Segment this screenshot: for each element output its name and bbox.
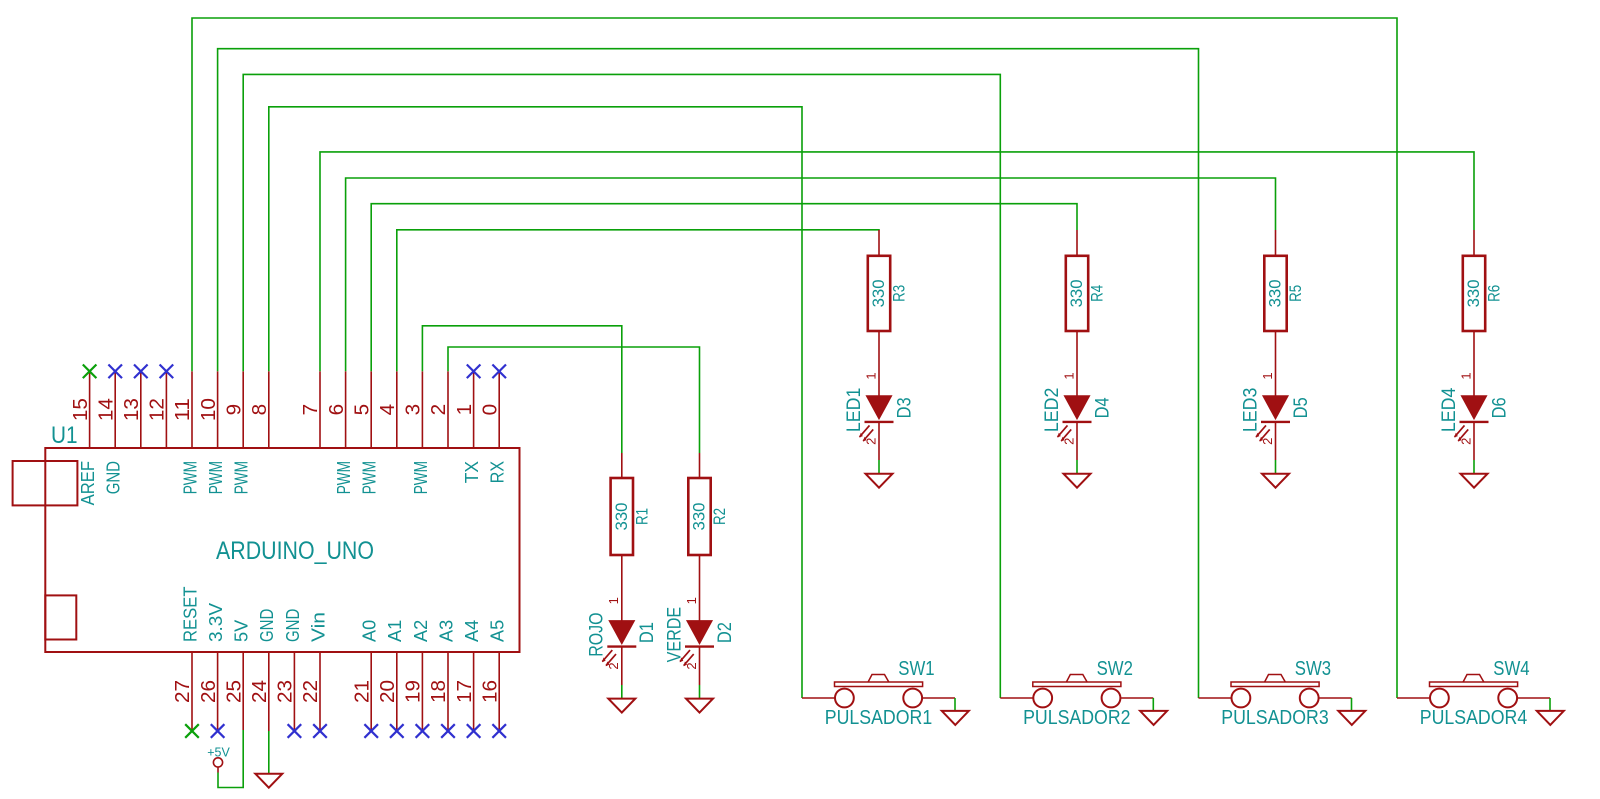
U1 bottom pin 19: [403, 620, 431, 731]
svg-text:SW2: SW2: [1097, 658, 1133, 680]
ground symbol below D2: [686, 699, 713, 713]
svg-text:AREF: AREF: [78, 461, 98, 505]
wire D2 cathode to ground: [699, 685, 701, 698]
svg-text:8: 8: [249, 404, 271, 416]
svg-text:PWM: PWM: [180, 461, 200, 494]
svg-text:11: 11: [172, 398, 194, 421]
no-connect X pin 0: [492, 365, 506, 379]
U1 top pin 1: [454, 371, 482, 483]
svg-text:0: 0: [479, 404, 501, 416]
U1 top pin 6: [326, 371, 354, 494]
U1 top pin 7: [300, 371, 322, 448]
svg-text:12: 12: [147, 398, 169, 421]
svg-text:PWM: PWM: [360, 461, 380, 494]
wire pin 24 to ground: [268, 731, 270, 774]
no-connect X pin 23: [288, 724, 302, 738]
svg-text:D4: D4: [1092, 397, 1113, 418]
svg-text:VERDE: VERDE: [664, 607, 685, 663]
wire pin 9 to SW2: [243, 74, 1000, 698]
svg-text:14: 14: [95, 398, 117, 421]
ground symbol below D3: [866, 474, 893, 488]
LED D5 LED3: [1240, 372, 1312, 460]
svg-text:PULSADOR2: PULSADOR2: [1023, 707, 1130, 729]
resistor R2 330: [688, 453, 729, 621]
wire pin 7 to R6: [320, 152, 1474, 371]
svg-text:1: 1: [863, 372, 878, 379]
no-connect X pin 18: [441, 724, 455, 738]
ground symbol below D6: [1461, 474, 1488, 488]
svg-text:Vin: Vin: [308, 612, 328, 642]
no-connect X pin 26: [211, 724, 225, 738]
svg-text:D3: D3: [894, 397, 915, 418]
svg-text:R2: R2: [710, 508, 729, 525]
U1 bottom pin 23: [275, 609, 303, 731]
LED D4 LED2: [1042, 372, 1114, 460]
svg-text:GND: GND: [257, 609, 277, 642]
U1 top pin 15: [70, 371, 98, 505]
U1 value ARDUINO_UNO: [216, 537, 374, 565]
resistor R5 330: [1264, 230, 1305, 396]
svg-text:LED2: LED2: [1042, 388, 1063, 432]
no-connect X pin 22: [313, 724, 327, 738]
U1 top pin 9: [223, 371, 251, 494]
switch SW3 PULSADOR3: [1199, 658, 1352, 729]
svg-text:GND: GND: [104, 461, 124, 494]
wire pin 6 to R5: [346, 178, 1276, 371]
svg-text:PULSADOR3: PULSADOR3: [1221, 707, 1328, 729]
svg-text:16: 16: [479, 680, 501, 703]
resistor R4 330: [1066, 230, 1107, 396]
svg-text:+5V: +5V: [207, 745, 230, 760]
svg-text:1: 1: [684, 597, 699, 604]
wire SW1 to ground: [954, 698, 956, 711]
svg-text:10: 10: [198, 398, 220, 421]
switch SW2 PULSADOR2: [1000, 658, 1153, 729]
svg-text:A3: A3: [436, 620, 456, 642]
svg-text:27: 27: [172, 680, 194, 703]
no-connect X pin 20: [390, 724, 404, 738]
U1 top pin 5: [351, 371, 379, 494]
svg-text:TX: TX: [462, 461, 482, 483]
svg-text:2: 2: [1458, 438, 1473, 445]
U1 top pin 4: [377, 371, 399, 448]
svg-text:PWM: PWM: [206, 461, 226, 494]
svg-text:LED3: LED3: [1240, 388, 1261, 432]
svg-text:2: 2: [606, 662, 621, 669]
wire pin 3 to R1: [422, 326, 621, 453]
no-connect X pin 13: [134, 365, 148, 379]
svg-text:PULSADOR4: PULSADOR4: [1420, 707, 1527, 729]
wire D5 cathode to ground: [1275, 460, 1277, 474]
svg-text:A4: A4: [462, 620, 482, 642]
svg-text:15: 15: [70, 398, 92, 421]
svg-text:ROJO: ROJO: [587, 612, 608, 656]
wire pin 4 to R3: [397, 230, 879, 371]
svg-text:25: 25: [223, 680, 245, 703]
ground symbol at SW2: [1140, 711, 1167, 725]
svg-text:LED4: LED4: [1439, 387, 1460, 432]
svg-text:4: 4: [377, 404, 399, 416]
U1 top pin 8: [249, 371, 271, 448]
svg-text:R5: R5: [1286, 285, 1305, 302]
U1 bottom pin 16: [479, 620, 507, 731]
resistor R6 330: [1463, 230, 1504, 396]
switch SW1 PULSADOR1: [802, 658, 955, 729]
svg-text:2: 2: [1061, 438, 1076, 445]
U1 USB connector box: [13, 461, 78, 505]
svg-text:5: 5: [351, 404, 373, 416]
svg-text:1: 1: [1061, 372, 1076, 379]
U1 bottom pin 22: [300, 612, 328, 731]
U1 reference designator: [51, 422, 78, 449]
U1 top pin 14: [95, 371, 123, 494]
wire pin 25 to +5V symbol: [218, 730, 243, 788]
LED D6 LED4: [1439, 372, 1511, 460]
U1 top pin 12: [147, 371, 169, 448]
svg-text:R4: R4: [1088, 285, 1107, 302]
svg-text:5V: 5V: [232, 620, 252, 642]
U1 top pin 2: [428, 371, 450, 448]
no-connect X pin 14: [108, 365, 122, 379]
svg-text:R1: R1: [633, 508, 652, 525]
svg-text:PULSADOR1: PULSADOR1: [825, 707, 932, 729]
U1 bottom pin 27: [172, 586, 200, 731]
svg-text:RESET: RESET: [180, 586, 200, 642]
svg-text:20: 20: [377, 680, 399, 703]
svg-text:22: 22: [300, 680, 322, 703]
no-connect X pin 12: [160, 365, 174, 379]
svg-text:19: 19: [403, 680, 425, 703]
svg-text:R6: R6: [1485, 285, 1504, 302]
ground symbol below pin 24: [255, 774, 282, 788]
ground symbol below D1: [608, 699, 635, 713]
wire pin 2 to R2: [448, 347, 700, 453]
svg-text:1: 1: [1260, 372, 1275, 379]
svg-text:23: 23: [275, 680, 297, 703]
svg-text:GND: GND: [283, 609, 303, 642]
svg-text:26: 26: [198, 680, 220, 703]
svg-text:PWM: PWM: [232, 461, 252, 494]
wire SW2 to ground: [1152, 698, 1154, 711]
svg-text:330: 330: [869, 279, 888, 307]
svg-text:D2: D2: [715, 622, 736, 643]
svg-text:D6: D6: [1489, 397, 1510, 418]
wire SW4 to ground: [1549, 698, 1551, 711]
no-connect X pin 27: [185, 724, 199, 738]
wire SW3 to ground: [1351, 698, 1353, 711]
U1 bottom pin 17: [454, 620, 482, 731]
U1 bottom pin 18: [428, 620, 456, 731]
svg-text:A1: A1: [385, 620, 405, 642]
no-connect X pin 19: [416, 724, 430, 738]
svg-text:A2: A2: [411, 620, 431, 642]
wire pin 5 to R4: [371, 204, 1077, 372]
svg-text:PWM: PWM: [411, 461, 431, 494]
svg-text:A0: A0: [360, 620, 380, 642]
svg-text:2: 2: [684, 662, 699, 669]
svg-text:18: 18: [428, 680, 450, 703]
ground symbol below D4: [1064, 474, 1091, 488]
svg-text:2: 2: [863, 438, 878, 445]
svg-text:R3: R3: [890, 285, 909, 302]
wire D3 cathode to ground: [878, 460, 880, 474]
op-amp U1 ARDUINO_UNO body: [45, 448, 519, 652]
no-connect X pin 15: [83, 365, 97, 379]
svg-text:LED1: LED1: [844, 388, 865, 432]
svg-text:330: 330: [612, 503, 631, 531]
svg-text:330: 330: [1464, 279, 1483, 307]
wire D4 cathode to ground: [1076, 460, 1078, 474]
U1 bottom pin 21: [351, 620, 379, 731]
svg-text:13: 13: [121, 398, 143, 421]
no-connect X pin 16: [492, 724, 506, 738]
svg-text:1: 1: [1458, 372, 1473, 379]
power symbol +5V: [207, 745, 230, 773]
wire pin 11 to SW4: [192, 18, 1397, 698]
svg-text:1: 1: [606, 597, 621, 604]
LED D2 VERDE: [664, 597, 736, 685]
U1 bottom pin 20: [377, 620, 405, 731]
svg-text:SW1: SW1: [898, 658, 934, 680]
wire D1 cathode to ground: [621, 685, 623, 698]
svg-text:7: 7: [300, 404, 322, 416]
U1 top pin 0: [479, 371, 507, 483]
no-connect X pin 17: [467, 724, 481, 738]
U1 power jack box: [45, 595, 76, 639]
switch SW4 PULSADOR4: [1397, 658, 1550, 729]
svg-text:17: 17: [454, 680, 476, 703]
U1 top pin 10: [198, 371, 226, 494]
LED D3 LED1: [844, 372, 916, 460]
resistor R3 330: [868, 230, 909, 396]
U1 bottom pin 25: [223, 620, 251, 730]
svg-text:6: 6: [326, 404, 348, 416]
wire pin 8 to SW1: [269, 107, 802, 698]
wire pin 10 to SW3: [218, 49, 1199, 698]
svg-text:9: 9: [223, 404, 245, 416]
svg-text:D1: D1: [637, 622, 658, 643]
svg-text:3.3V: 3.3V: [206, 603, 226, 642]
svg-text:24: 24: [249, 680, 271, 703]
svg-text:2: 2: [428, 404, 450, 416]
svg-text:U1: U1: [51, 422, 78, 449]
svg-text:RX: RX: [488, 461, 508, 483]
svg-text:A5: A5: [488, 620, 508, 642]
U1 top pin 11: [172, 371, 200, 494]
U1 top pin 13: [121, 371, 143, 448]
svg-text:SW4: SW4: [1493, 658, 1529, 680]
svg-text:3: 3: [403, 404, 425, 416]
svg-text:ARDUINO_UNO: ARDUINO_UNO: [216, 537, 374, 565]
wire D6 cathode to ground: [1473, 460, 1475, 474]
svg-text:330: 330: [1067, 279, 1086, 307]
svg-text:330: 330: [1266, 279, 1285, 307]
no-connect X pin 1: [467, 365, 481, 379]
svg-text:1: 1: [454, 404, 476, 416]
svg-text:2: 2: [1260, 438, 1275, 445]
svg-text:SW3: SW3: [1295, 658, 1331, 680]
svg-text:330: 330: [690, 503, 709, 531]
ground symbol at SW4: [1537, 711, 1564, 725]
U1 bottom pin 24: [249, 609, 277, 731]
ground symbol below D5: [1262, 474, 1289, 488]
svg-text:PWM: PWM: [334, 461, 354, 494]
U1 bottom pin 26: [198, 603, 226, 731]
svg-text:21: 21: [351, 680, 373, 703]
svg-text:D5: D5: [1291, 397, 1312, 418]
ground symbol at SW3: [1338, 711, 1365, 725]
ground symbol at SW1: [942, 711, 969, 725]
resistor R1 330: [611, 453, 652, 621]
LED D1 ROJO: [587, 597, 659, 685]
no-connect X pin 21: [364, 724, 378, 738]
U1 top pin 3: [403, 371, 431, 494]
